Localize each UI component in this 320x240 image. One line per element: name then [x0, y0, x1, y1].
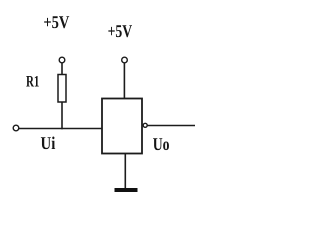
- svg-text:Uo: Uo: [153, 134, 170, 154]
- svg-text:+5V: +5V: [43, 12, 69, 32]
- svg-text:+5V: +5V: [108, 21, 133, 41]
- svg-text:R1: R1: [26, 74, 39, 91]
- svg-text:Ui: Ui: [41, 133, 56, 153]
